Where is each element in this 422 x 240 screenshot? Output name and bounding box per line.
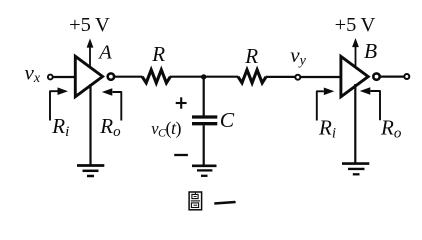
ground (left inverter) [77, 166, 104, 177]
wire R1 to node [170, 76, 238, 78]
svg-text:R: R [244, 44, 258, 68]
wire U2 to ground [354, 84, 356, 163]
terminal circle vy [295, 75, 300, 80]
ground (right inverter) [342, 164, 369, 175]
minus polarity mark [174, 154, 188, 156]
wire vy to U2 [301, 76, 340, 78]
Ri arrow (right inverter) [317, 88, 335, 121]
svg-text:B: B [364, 39, 377, 63]
wire vx to U1 [53, 76, 74, 78]
resistor R2 [238, 70, 266, 83]
wire capacitor to ground [203, 125, 205, 165]
svg-text:+5 V: +5 V [69, 14, 110, 36]
input terminal circle vx [48, 75, 53, 80]
junction node dot [201, 74, 206, 79]
output terminal circle [404, 74, 409, 79]
svg-text:R: R [151, 42, 165, 66]
capacitor C plates [192, 117, 217, 124]
op-amp U1 inverter triangle [75, 56, 102, 96]
Ro arrow (left inverter) [102, 88, 122, 120]
power arrow (left inverter) [87, 39, 94, 67]
svg-text:vC(t): vC(t) [151, 118, 181, 140]
Ro arrow (right inverter) [360, 87, 380, 120]
caption glyph 圖 [189, 192, 202, 210]
Ri arrow (left inverter) [50, 87, 68, 120]
svg-text:C: C [220, 108, 235, 132]
wire U1 to ground [89, 84, 91, 165]
svg-text:A: A [97, 42, 112, 64]
power arrow (right inverter) [352, 38, 359, 67]
op-amp U2 inverter triangle [341, 56, 368, 96]
resistor R1 [142, 70, 170, 83]
wire node to capacitor [203, 78, 205, 116]
svg-text:+5 V: +5 V [335, 14, 376, 36]
plus polarity mark [176, 97, 187, 108]
wire R2 to vy [266, 76, 295, 78]
inverter bubble U1 [108, 73, 114, 79]
inverter bubble U2 [373, 73, 379, 79]
wire B to output terminal [381, 75, 404, 77]
wire A to R1 [115, 76, 143, 78]
ground (capacitor) [192, 166, 217, 176]
caption glyph 一 [214, 201, 236, 205]
